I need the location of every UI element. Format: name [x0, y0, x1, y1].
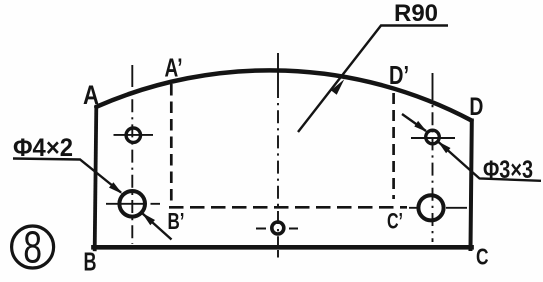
- arrowhead R90 on arc: [331, 79, 344, 95]
- node center line vertical middle: [277, 53, 279, 98]
- wire top arc A-D R90: [96, 70, 471, 120]
- hole bottom-left large: [119, 191, 145, 217]
- wire leader phi4x2 upper: [13, 159, 121, 193]
- svg-text:D’: D’: [389, 60, 409, 90]
- svg-text:C: C: [476, 244, 489, 270]
- svg-text:8: 8: [23, 223, 42, 273]
- wire leader R90: [298, 26, 448, 133]
- wire leader phi3x3 upper: [402, 114, 426, 131]
- wire hidden dashed vertical A'-B': [170, 84, 173, 207]
- node center line horizontal top-right hole: [411, 137, 455, 139]
- node center line horizontal bottom-right hole: [409, 207, 467, 209]
- wire hidden dashed horizontal B'-C': [169, 206, 407, 209]
- hole middle small: [272, 222, 284, 234]
- hole top-left small: [126, 128, 140, 142]
- wire leader phi4x2 lower: [143, 214, 172, 240]
- svg-text:A: A: [83, 80, 99, 110]
- hole top-right small: [426, 130, 440, 144]
- svg-text:Φ4×2: Φ4×2: [13, 134, 73, 162]
- wire hidden dashed vertical D'-C': [392, 93, 395, 199]
- node center line vertical right: [432, 73, 434, 100]
- svg-text:B: B: [84, 247, 97, 277]
- arrowhead phi4x2 upper: [109, 182, 123, 194]
- svg-text:A’: A’: [165, 53, 183, 83]
- node center line ticks middle hole: [256, 228, 298, 230]
- node center line horizontal top-left hole: [114, 134, 154, 136]
- hole bottom-right large: [418, 195, 443, 220]
- wire left edge A-B: [95, 107, 97, 250]
- svg-text:D: D: [469, 93, 483, 121]
- wire leader phi3x3 lower: [439, 142, 542, 181]
- wire right edge D-C: [471, 121, 472, 250]
- node center line vertical left: [131, 65, 133, 87]
- svg-text:B’: B’: [168, 208, 185, 234]
- svg-text:Φ3×3: Φ3×3: [483, 156, 533, 184]
- arrowhead phi3x3 lower: [438, 141, 451, 153]
- arrowhead phi3x3 upper: [414, 121, 427, 132]
- wire bottom edge B-C: [94, 245, 472, 250]
- figure number circle 8: [12, 226, 54, 268]
- arrowhead phi4x2 lower: [142, 213, 155, 225]
- node center line horizontal bottom-left hole: [106, 203, 160, 205]
- svg-text:C’: C’: [387, 209, 403, 234]
- svg-text:R90: R90: [394, 0, 438, 27]
